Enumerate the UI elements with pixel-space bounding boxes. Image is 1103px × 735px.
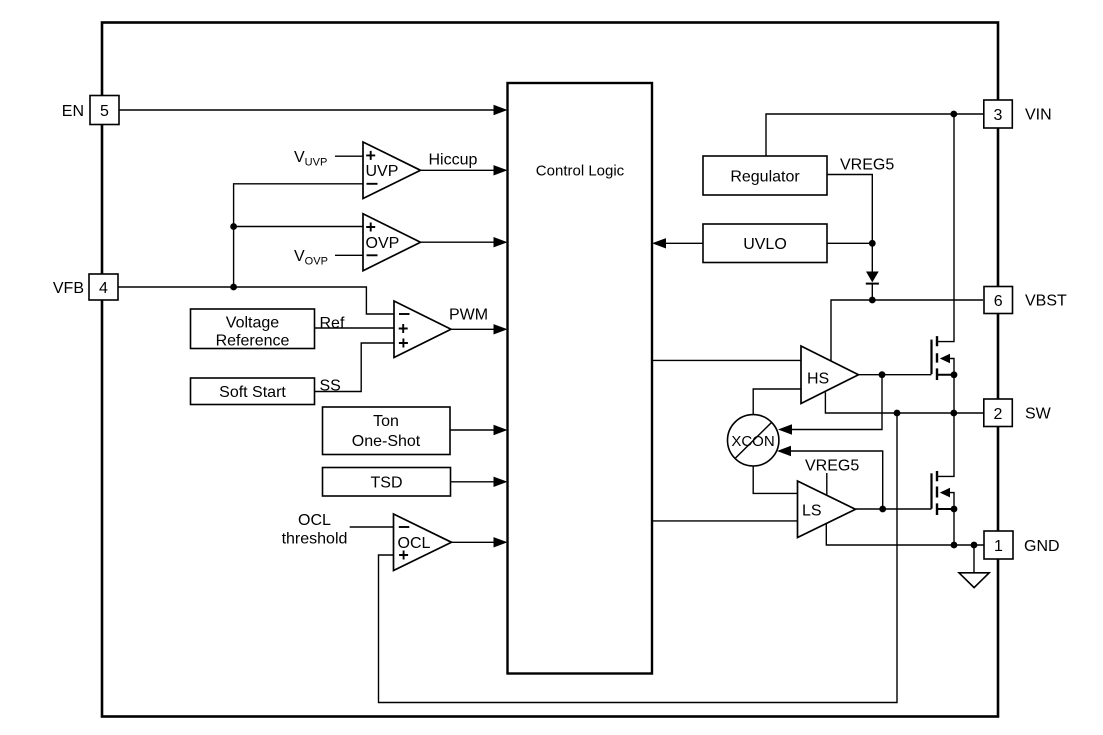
wire HS output to high-side gate xyxy=(859,374,932,376)
node LS gate junction xyxy=(879,506,886,513)
block UVLO xyxy=(703,224,827,263)
pin 6 VBST xyxy=(984,287,1067,314)
svg-text:SW: SW xyxy=(1025,405,1052,422)
svg-text:Ref: Ref xyxy=(320,315,345,332)
svg-text:6: 6 xyxy=(994,293,1003,310)
arrowhead OVP input xyxy=(494,237,508,247)
block Ton One-Shot xyxy=(323,407,451,455)
node SW FET junction xyxy=(950,410,957,417)
wire VFB branch up to UVP minus xyxy=(234,184,363,287)
svg-text:VREG5: VREG5 xyxy=(805,457,859,474)
arrowhead OCL input xyxy=(494,537,508,547)
svg-text:One-Shot: One-Shot xyxy=(352,433,421,450)
wire OVP output to Control Logic xyxy=(421,241,495,243)
svg-text:Reference: Reference xyxy=(216,333,290,350)
wire UVLO to Control Logic xyxy=(666,242,703,244)
svg-text:2: 2 xyxy=(994,406,1003,423)
crossconduction block XCON xyxy=(728,415,779,466)
wire V_UVP stub xyxy=(335,155,363,157)
svg-text:3: 3 xyxy=(994,107,1003,124)
driver LS xyxy=(798,481,856,538)
arrowhead XCON lower input xyxy=(777,446,791,456)
node VFB branch xyxy=(230,284,237,291)
wire XCON bottom to LS input xyxy=(753,466,797,493)
wire V_OVP stub xyxy=(335,254,363,256)
svg-text:GND: GND xyxy=(1024,538,1060,555)
arrowhead EN input xyxy=(494,105,508,115)
svg-text:Ton: Ton xyxy=(373,413,399,430)
svg-text:threshold: threshold xyxy=(282,530,348,547)
svg-text:OCL: OCL xyxy=(398,535,431,552)
wire SS to PWM comparator xyxy=(315,343,395,392)
pin 1 GND xyxy=(984,531,1060,559)
svg-text:Soft Start: Soft Start xyxy=(219,384,286,401)
svg-text:TSD: TSD xyxy=(371,475,403,492)
wire VFB to PWM comparator minus input xyxy=(118,287,394,314)
svg-text:VIN: VIN xyxy=(1025,106,1052,123)
comparator OCL xyxy=(394,514,452,571)
wire XCON top to HS input xyxy=(753,389,801,415)
wire LS gate node to XCON lower input xyxy=(791,451,883,509)
wire PWM output to Control Logic xyxy=(451,328,494,330)
wire Control Logic to LS driver xyxy=(652,520,798,522)
svg-text:5: 5 xyxy=(100,103,109,120)
pin 3 VIN xyxy=(984,100,1052,128)
svg-text:XCON: XCON xyxy=(731,433,774,450)
wire OCL plus loop to SW sense xyxy=(379,413,898,703)
arrowhead XCON upper input xyxy=(778,424,792,434)
arrowhead TSD input xyxy=(494,477,508,487)
node HS gate junction xyxy=(879,371,886,378)
svg-text:LS: LS xyxy=(802,503,822,520)
pin 4 VFB xyxy=(53,274,118,300)
arrowhead UVLO into Control Logic xyxy=(652,238,666,248)
node SW sense junction xyxy=(894,410,901,417)
svg-text:UVLO: UVLO xyxy=(743,236,787,253)
svg-text:Regulator: Regulator xyxy=(730,168,800,185)
node GND symbol junction xyxy=(971,542,978,549)
svg-text:Control Logic: Control Logic xyxy=(536,163,625,180)
block Regulator xyxy=(703,156,827,195)
ground symbol xyxy=(959,545,989,588)
arrowhead PWM input xyxy=(494,324,508,334)
svg-text:VBST: VBST xyxy=(1025,292,1067,309)
wire HS gate node to XCON upper input xyxy=(792,375,883,430)
block Soft Start xyxy=(191,378,315,405)
block Voltage Reference xyxy=(191,309,315,350)
wire Ref to PWM comparator xyxy=(315,327,395,329)
comparator OVP xyxy=(363,214,421,271)
wire VIN to Regulator xyxy=(766,114,983,156)
svg-text:Hiccup: Hiccup xyxy=(429,152,478,169)
wire branch to OVP plus xyxy=(234,226,363,228)
IC boundary xyxy=(102,23,998,717)
svg-text:1: 1 xyxy=(994,538,1003,555)
svg-text:UVP: UVP xyxy=(366,163,399,180)
comparator UVP xyxy=(363,142,421,199)
arrowhead Hiccup input xyxy=(494,165,508,175)
svg-text:4: 4 xyxy=(99,280,108,297)
svg-text:OCL: OCL xyxy=(298,512,331,529)
node GND FET junction xyxy=(951,542,958,549)
node VREG5 UVLO junction xyxy=(869,240,876,247)
wire UVP output to Control Logic xyxy=(421,169,495,171)
svg-text:VFB: VFB xyxy=(53,280,84,297)
wire HS bottom to SW rail xyxy=(825,392,983,413)
wire Ton output to Control Logic xyxy=(450,429,494,431)
svg-text:VREG5: VREG5 xyxy=(840,156,894,173)
wire OCL output to Control Logic xyxy=(452,541,495,543)
transistor Q1 high-side NMOS xyxy=(932,114,958,413)
svg-text:EN: EN xyxy=(62,103,84,120)
wire UVLO to VREG5 node xyxy=(827,242,872,244)
block TSD xyxy=(323,468,451,497)
pin 2 SW xyxy=(984,399,1052,427)
node diode VBST junction xyxy=(869,297,876,304)
wire OCL threshold stub xyxy=(350,526,394,528)
wire Regulator output VREG5 xyxy=(827,175,872,272)
wire VREG5 stub to LS driver xyxy=(826,473,828,495)
node OVP plus branch xyxy=(230,223,237,230)
pin 5 EN xyxy=(62,96,119,125)
transistor Q2 low-side NMOS xyxy=(932,413,958,545)
svg-text:HS: HS xyxy=(807,371,829,388)
svg-text:Voltage: Voltage xyxy=(226,315,279,332)
wire Control Logic to HS driver xyxy=(652,359,801,361)
block: Control Logic xyxy=(508,83,653,674)
driver HS xyxy=(801,346,859,404)
svg-text:PWM: PWM xyxy=(449,306,488,323)
diode D1 VREG5 to VBST xyxy=(866,272,879,301)
wire TSD output to Control Logic xyxy=(451,481,495,483)
svg-text:OVP: OVP xyxy=(366,235,400,252)
wire LS output to low-side gate xyxy=(856,508,932,510)
arrowhead Ton input xyxy=(494,425,508,435)
wire VBST rail to HS driver xyxy=(831,300,983,361)
comparator PWM xyxy=(394,301,451,358)
node VIN drain junction xyxy=(950,111,957,118)
wire LS bottom to GND rail xyxy=(826,524,984,546)
wire EN to Control Logic xyxy=(119,109,494,111)
